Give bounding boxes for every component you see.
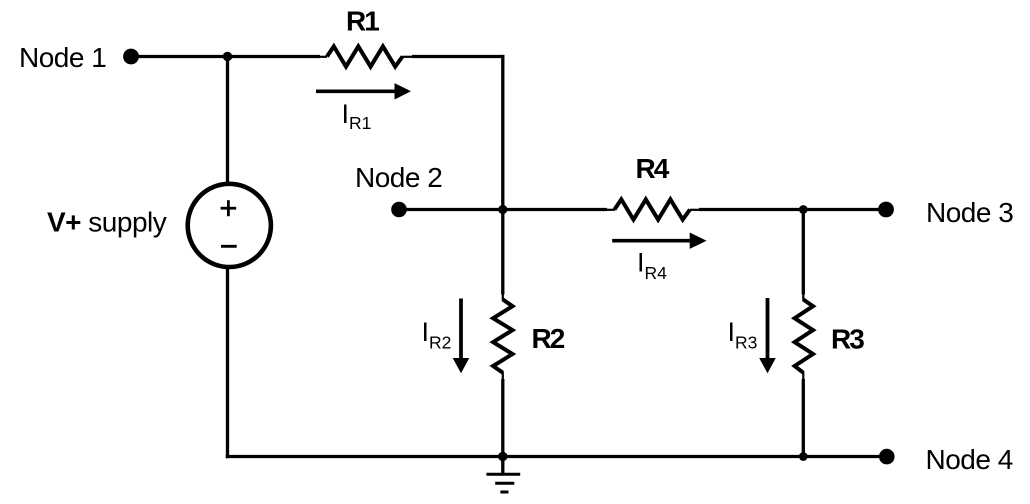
- svg-text:IR4: IR4: [637, 248, 667, 284]
- current arrow I_R2: [459, 299, 463, 360]
- voltage source U1 circle: [188, 184, 271, 267]
- svg-text:IR1: IR1: [342, 99, 372, 133]
- wire stub left of R4: [606, 209, 615, 211]
- current arrow I_R1: [316, 90, 396, 94]
- svg-text:Node 1: Node 1: [19, 42, 106, 73]
- wire: vertical right (R3 branch) top segment: [802, 210, 805, 295]
- wire stub below R2: [502, 372, 504, 380]
- node dot Node 1: [123, 49, 139, 65]
- svg-text:R1: R1: [346, 6, 379, 37]
- svg-text:Node 3: Node 3: [926, 197, 1013, 228]
- ground bar 1: [486, 473, 520, 476]
- wire top: R1 right to corner: [412, 55, 504, 58]
- junction dot R3/bottom rail: [799, 452, 808, 461]
- wire: vertical mid (R2 branch) top segment: [501, 55, 504, 295]
- minus sign inside source: [221, 245, 237, 248]
- wire stub below R3: [802, 372, 804, 380]
- plus sign inside source: [221, 207, 237, 210]
- svg-text:V+ supply: V+ supply: [47, 207, 167, 238]
- junction dot ground: [498, 452, 507, 461]
- resistor R3: [795, 300, 813, 373]
- resistor R1: [327, 46, 403, 66]
- wire: R2 bottom to bottom rail: [501, 379, 504, 457]
- wire: supply bottom down to bottom rail: [226, 268, 229, 459]
- current arrow I_R4: [612, 239, 691, 243]
- junction dot Node2/R2: [498, 205, 507, 214]
- svg-text:Node 2: Node 2: [355, 162, 442, 193]
- wire: R4 right to Node 3: [699, 208, 886, 211]
- wire: Node 2 rail to R4 left: [404, 208, 607, 211]
- node dot Node 3: [878, 202, 894, 218]
- node dot Node 4: [879, 449, 895, 465]
- resistor R4: [615, 199, 691, 219]
- svg-text:R3: R3: [831, 324, 864, 355]
- svg-text:Node 4: Node 4: [926, 444, 1013, 475]
- wire stub left of R1: [319, 56, 327, 58]
- current arrow I_R3: [766, 298, 770, 359]
- wire: bottom rail: [226, 455, 887, 458]
- svg-text:IR3: IR3: [728, 317, 758, 353]
- wire: vertical Node1 junction down to supply: [226, 57, 229, 184]
- wire: R3 bottom to bottom rail: [802, 379, 805, 457]
- ground bar 3: [500, 491, 508, 494]
- svg-text:IR2: IR2: [422, 317, 452, 353]
- ground bar 2: [495, 482, 514, 485]
- svg-text:R4: R4: [636, 153, 670, 184]
- resistor R2: [493, 300, 512, 373]
- ground stem: [501, 457, 504, 475]
- junction dot at Node1/supply: [223, 52, 232, 61]
- junction dot Node3/R3: [799, 205, 808, 214]
- wire stub above R3: [802, 293, 804, 301]
- node dot Node 2: [391, 202, 407, 218]
- wire stub right of R1: [402, 56, 413, 58]
- svg-text:R2: R2: [532, 323, 565, 354]
- wire stub above R2: [502, 293, 504, 301]
- wire top: Node 1 to R1 left: [136, 55, 320, 58]
- wire stub right of R4: [690, 209, 700, 211]
